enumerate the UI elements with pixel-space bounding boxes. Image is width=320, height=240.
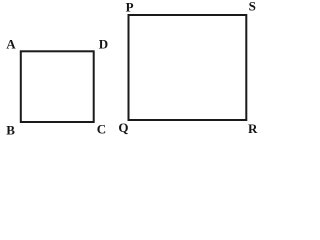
square ABCD [21,51,94,122]
svg-text:B: B [6,122,15,137]
svg-text:C: C [97,121,106,136]
svg-text:A: A [6,37,16,52]
svg-text:D: D [99,37,108,52]
square PQRS [129,15,247,120]
svg-text:P: P [126,0,134,14]
svg-text:S: S [249,0,256,13]
svg-text:Q: Q [118,120,128,135]
svg-text:R: R [248,121,258,136]
